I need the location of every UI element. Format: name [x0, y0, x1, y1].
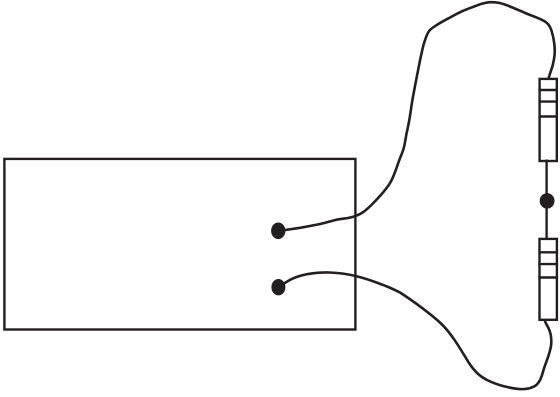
node B (lower terminal dot): [271, 279, 285, 295]
resistor R1 color bands: [538, 90, 558, 117]
battery pack (rectangle): [4, 159, 355, 330]
wire (series link R1 - junction - R2): [545, 160, 547, 241]
resistor R2 color bands: [538, 252, 558, 277]
node A (upper terminal dot): [271, 223, 285, 240]
resistor R1 body: [540, 79, 557, 161]
wire (lower lead: from node B around the bottom to resistor R2): [279, 272, 552, 389]
junction node between R1 and R2: [540, 193, 555, 209]
resistor R2 body: [540, 239, 557, 320]
wire (upper lead: from node A over the top to resistor R1): [279, 2, 555, 231]
